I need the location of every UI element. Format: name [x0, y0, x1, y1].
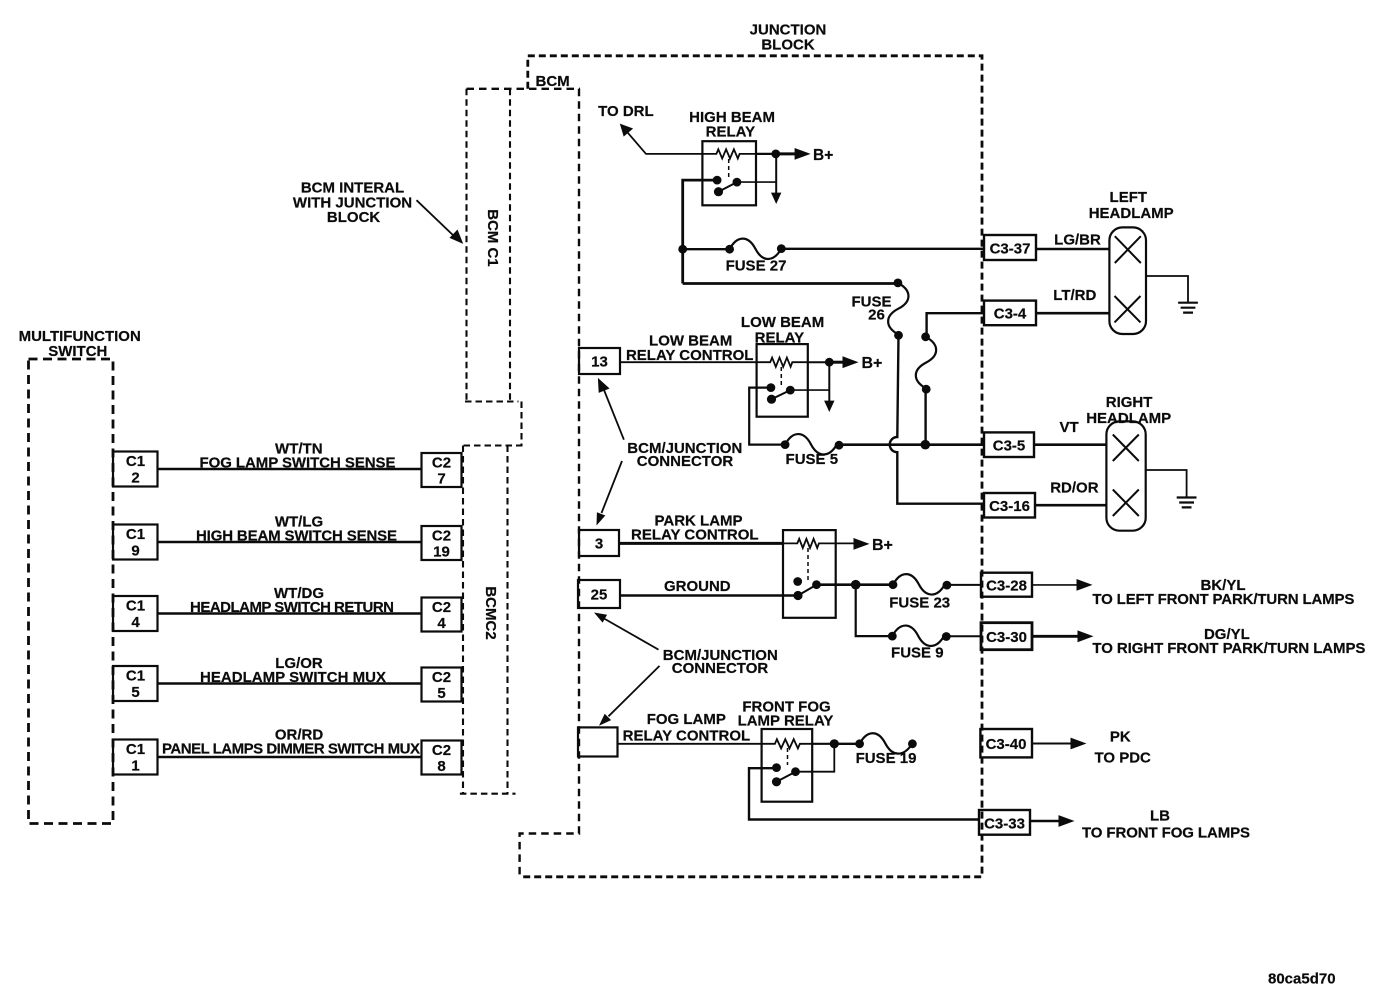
svg-text:VT: VT	[1060, 419, 1079, 436]
wire LG/OR headlamp switch mux	[158, 655, 422, 686]
relay high beam contact common	[733, 178, 742, 187]
node fuse 19 junction	[830, 739, 839, 748]
junction block dashed outline	[520, 56, 982, 877]
fuse 9	[888, 626, 951, 662]
arrow to fog lamp connector box	[599, 666, 660, 726]
front fog lamp relay title	[738, 698, 834, 729]
left headlamp low beam bulb	[1115, 296, 1141, 322]
relay high beam switch blade	[719, 182, 737, 192]
left headlamp title	[1089, 189, 1174, 222]
wire fuse 23 to C3-28	[947, 584, 981, 586]
BCM pin 13 box	[579, 348, 620, 374]
svg-text:C3-30: C3-30	[986, 629, 1027, 646]
wire OR/RD panel lamps dimmer switch mux	[158, 727, 422, 758]
connector C2 pin 4	[422, 598, 462, 633]
svg-text:FUSE 27: FUSE 27	[726, 257, 787, 274]
relay front fog contact common	[791, 767, 800, 776]
arrow to BCM C1 box	[417, 200, 464, 244]
wire low beam relay output to fuse 5	[749, 388, 785, 445]
wire C3-4 branch corner	[927, 313, 984, 337]
wire node to fuse 19	[834, 743, 859, 745]
connector C3-40	[980, 729, 1032, 757]
wire park common to fuse node	[817, 583, 894, 586]
relay low beam switch blade	[772, 390, 791, 399]
svg-text:C3-5: C3-5	[993, 438, 1026, 455]
park lamp relay control label	[631, 513, 759, 544]
BCM dashed boundary	[467, 89, 581, 877]
wire LG/BR to left headlamp	[1036, 232, 1109, 250]
relay low beam box	[757, 344, 808, 417]
connector C1 pin 9	[113, 525, 158, 560]
low beam relay title	[741, 314, 824, 347]
wire 13 to low beam relay	[620, 361, 757, 363]
relay high beam coil dashed actuator	[728, 159, 730, 179]
right headlamp high beam bulb	[1113, 435, 1139, 462]
svg-text:LOW BEAM: LOW BEAM	[741, 314, 824, 331]
relay front fog coil dashed actuator	[787, 748, 789, 765]
relay park lamp switch blade	[798, 585, 817, 596]
relay high beam contact fixed	[713, 176, 722, 185]
relay front fog box	[762, 729, 813, 802]
svg-text:1: 1	[131, 758, 139, 775]
wire WT/TN fog lamp switch sense	[158, 441, 422, 472]
node fuse 26 top	[894, 279, 903, 288]
relay front fog switch blade	[777, 772, 796, 782]
fuse 26	[851, 283, 908, 340]
svg-text:TO PDC: TO PDC	[1094, 750, 1151, 767]
wire bus to fuse 26	[683, 282, 898, 285]
BCM pin 25 box	[578, 580, 620, 608]
node B+ junction low beam	[825, 358, 834, 367]
wire fuse 9 to C3-30	[946, 635, 981, 637]
relay park lamp box	[783, 530, 836, 618]
relay high beam contact lower	[714, 187, 723, 196]
svg-text:C1: C1	[126, 526, 145, 543]
svg-text:C2: C2	[432, 455, 451, 472]
svg-text:C1: C1	[126, 741, 145, 758]
wire B+ arrow park lamp	[836, 537, 893, 554]
svg-text:C3-4: C3-4	[994, 306, 1027, 323]
wire RD/OR to right headlamp	[1035, 480, 1106, 506]
svg-text:19: 19	[433, 544, 450, 561]
connector C3-30	[981, 623, 1032, 650]
connector C3-28	[981, 573, 1032, 597]
svg-text:9: 9	[131, 543, 139, 560]
svg-text:26: 26	[868, 307, 885, 324]
svg-text:TO LEFT FRONT PARK/TURN LAMPS: TO LEFT FRONT PARK/TURN LAMPS	[1092, 591, 1354, 608]
wire down arrow from B+ node low beam	[824, 362, 834, 412]
wire park junction down to fuse 9	[856, 585, 893, 636]
wire 3 to park lamp relay	[619, 542, 783, 545]
node junction on C3-5 wire	[921, 440, 931, 450]
connector C3-5	[984, 432, 1034, 457]
junction block title	[750, 22, 827, 54]
svg-text:C3-33: C3-33	[984, 816, 1025, 833]
svg-text:C2: C2	[432, 528, 451, 545]
svg-text:RELAY CONTROL: RELAY CONTROL	[623, 727, 751, 744]
relay high beam box	[702, 141, 756, 205]
svg-text:FUSE 23: FUSE 23	[889, 595, 950, 612]
connector C2 pin 8	[422, 741, 462, 776]
wire resistor to B+ node	[756, 153, 776, 155]
svg-text:25: 25	[591, 587, 608, 604]
wire branch b to C3-5 wire	[924, 389, 926, 445]
connector C3-37	[984, 235, 1036, 260]
wire fuse 5 to C3-5	[839, 443, 984, 446]
wire common contact to down branch	[737, 181, 776, 183]
svg-text:RIGHT: RIGHT	[1106, 394, 1153, 411]
relay low beam coil dashed actuator	[780, 367, 782, 386]
high beam relay title	[689, 109, 775, 141]
left headlamp high beam bulb	[1115, 236, 1141, 263]
fuse 19	[855, 733, 917, 767]
arrow to pin 13 box	[598, 378, 624, 440]
relay front fog contact fixed	[772, 763, 781, 772]
node fuse 27 tap	[678, 245, 687, 254]
wire WT/DG headlamp switch return	[158, 585, 422, 616]
connector C2 pin 7	[422, 453, 462, 488]
low beam relay control label	[626, 333, 754, 365]
connector C2 pin 5	[422, 668, 462, 703]
ground right headlamp	[1177, 498, 1197, 508]
wire B+ arrow high beam	[776, 147, 833, 164]
wire arrow to left front park turn lamps	[1032, 579, 1093, 591]
right headlamp lamp body	[1106, 421, 1145, 530]
wire B+ arrow low beam	[829, 355, 882, 372]
svg-text:FUSE 19: FUSE 19	[856, 750, 917, 767]
svg-text:13: 13	[591, 354, 608, 371]
svg-text:C1: C1	[126, 453, 145, 470]
right headlamp low beam bulb	[1113, 490, 1139, 517]
svg-text:GROUND: GROUND	[664, 578, 731, 595]
BCMC2 connector dashed box	[460, 446, 516, 794]
svg-text:TO DRL: TO DRL	[598, 103, 654, 120]
fuse 27	[683, 239, 787, 275]
wire fog relay output to C3-33	[749, 768, 979, 819]
svg-text:C1: C1	[126, 598, 145, 615]
svg-text:BCMC2: BCMC2	[482, 586, 499, 639]
wire to DRL with arrowhead	[620, 124, 703, 154]
connector C1 pin 1	[113, 740, 158, 775]
svg-text:HIGH BEAM SWITCH SENSE: HIGH BEAM SWITCH SENSE	[196, 528, 397, 545]
svg-text:PK: PK	[1110, 729, 1131, 746]
svg-text:C3-28: C3-28	[986, 578, 1027, 595]
relay low beam contact common	[786, 386, 795, 395]
svg-text:HEADLAMP SWITCH MUX: HEADLAMP SWITCH MUX	[200, 669, 386, 686]
svg-text:B+: B+	[862, 355, 883, 372]
svg-text:RELAY: RELAY	[706, 124, 755, 141]
svg-text:HEADLAMP: HEADLAMP	[1089, 205, 1174, 222]
relay park lamp contact common	[812, 580, 821, 589]
right headlamp title	[1086, 394, 1171, 427]
svg-text:CONNECTOR: CONNECTOR	[637, 453, 734, 470]
svg-text:TO RIGHT FRONT PARK/TURN LAMPS: TO RIGHT FRONT PARK/TURN LAMPS	[1092, 640, 1365, 657]
svg-text:CONNECTOR: CONNECTOR	[672, 660, 769, 677]
svg-text:C2: C2	[432, 669, 451, 686]
label DG/YL to right front park turn lamps	[1092, 626, 1365, 657]
wire fuse 26 down with hop over C3-5 wire	[890, 335, 984, 503]
wire fuse node down to common contact	[796, 744, 835, 772]
connector C1 pin 4	[113, 596, 158, 631]
svg-text:4: 4	[437, 615, 446, 632]
multifunction switch title	[19, 328, 141, 360]
svg-text:8: 8	[437, 758, 445, 775]
arrow to pin 3 box	[597, 461, 623, 526]
svg-text:B+: B+	[872, 537, 893, 554]
arrow to pin 25 box	[594, 613, 659, 650]
label BK/YL to left front park turn lamps	[1092, 577, 1354, 608]
connector C2 pin 19	[422, 526, 462, 561]
wire arrow to right front park turn lamps	[1032, 630, 1094, 642]
relay park lamp coil resistor	[783, 539, 836, 548]
svg-text:LT/RD: LT/RD	[1053, 287, 1096, 304]
svg-text:2: 2	[131, 470, 139, 487]
svg-text:LB: LB	[1150, 808, 1170, 825]
svg-text:C3-16: C3-16	[989, 498, 1030, 515]
svg-text:C3-40: C3-40	[986, 736, 1027, 753]
ground left headlamp	[1178, 303, 1198, 313]
svg-text:5: 5	[131, 684, 139, 701]
svg-text:TO FRONT FOG LAMPS: TO FRONT FOG LAMPS	[1082, 825, 1250, 842]
svg-text:3: 3	[595, 536, 603, 553]
fuse 26 second element	[916, 337, 936, 389]
svg-text:BCM C1: BCM C1	[484, 209, 501, 267]
svg-text:HEADLAMP SWITCH RETURN: HEADLAMP SWITCH RETURN	[190, 599, 394, 616]
relay park lamp coil dashed actuator	[807, 548, 809, 581]
relay high beam coil resistor	[702, 149, 756, 158]
svg-text:PANEL LAMPS DIMMER SWITCH MUX: PANEL LAMPS DIMMER SWITCH MUX	[162, 741, 420, 758]
wire down arrow from B+ node	[771, 154, 781, 204]
svg-text:5: 5	[437, 685, 445, 702]
node park output junction	[851, 580, 861, 590]
svg-text:SWITCH: SWITCH	[48, 343, 107, 360]
BCM INTERAL WITH JUNCTION BLOCK label	[293, 180, 412, 227]
svg-text:RD/OR: RD/OR	[1050, 480, 1099, 497]
relay park lamp contact lower	[793, 591, 802, 600]
svg-text:HEADLAMP: HEADLAMP	[1086, 410, 1171, 427]
wire resistor to B+ node low beam	[808, 361, 830, 363]
BCM junction connector label upper	[627, 440, 742, 470]
svg-text:FUSE 5: FUSE 5	[786, 451, 839, 468]
svg-text:LEFT: LEFT	[1110, 189, 1148, 206]
multifunction switch dashed box	[29, 359, 114, 824]
relay low beam contact lower	[767, 395, 776, 404]
node branch b top	[921, 332, 930, 341]
svg-text:BLOCK: BLOCK	[761, 37, 814, 54]
wire left headlamp to ground	[1146, 276, 1188, 303]
connector C1 pin 2	[113, 452, 158, 487]
wire VT to right headlamp	[1034, 419, 1106, 445]
left headlamp lamp body	[1109, 227, 1146, 334]
BCM pin 3 box	[579, 530, 619, 556]
relay low beam contact fixed	[767, 383, 776, 392]
relay low beam coil resistor	[757, 358, 808, 367]
svg-text:BCM: BCM	[536, 73, 570, 90]
svg-text:80ca5d70: 80ca5d70	[1268, 971, 1336, 988]
label PK to PDC	[1094, 729, 1151, 767]
label LB to front fog lamps	[1082, 808, 1250, 842]
svg-text:C2: C2	[432, 599, 451, 616]
svg-text:C1: C1	[126, 668, 145, 685]
fuse 5	[781, 434, 844, 468]
BCM junction connector label lower	[663, 647, 778, 677]
svg-text:FUSE 9: FUSE 9	[891, 645, 944, 662]
wire arrow to PDC	[1032, 738, 1087, 750]
svg-text:B+: B+	[813, 147, 833, 164]
wire fog connector to relay	[618, 743, 762, 745]
connector C3-33	[979, 810, 1030, 835]
svg-text:C2: C2	[432, 742, 451, 759]
fog lamp relay control label	[623, 711, 751, 745]
BCM C1 connector dashed box	[463, 89, 523, 446]
wire resistor to fuse 19 node	[812, 743, 834, 745]
connector C3-16	[984, 493, 1035, 518]
node B+ junction high beam	[771, 150, 780, 159]
wire low beam common to down branch	[790, 389, 829, 391]
wire right headlamp to ground	[1146, 470, 1187, 498]
svg-text:FOG LAMP SWITCH SENSE: FOG LAMP SWITCH SENSE	[200, 455, 396, 472]
node branch b bottom	[922, 385, 931, 394]
BCM fog lamp connector box	[578, 727, 618, 756]
svg-text:C3-37: C3-37	[990, 241, 1031, 258]
wire fuse 27 to C3-37	[781, 248, 984, 250]
svg-text:LAMP RELAY: LAMP RELAY	[738, 713, 834, 730]
svg-text:RELAY CONTROL: RELAY CONTROL	[631, 527, 759, 544]
wire arrow to front fog lamps	[1030, 815, 1075, 827]
wire LT/RD to left headlamp	[1036, 287, 1109, 313]
connector C1 pin 5	[113, 666, 158, 701]
svg-text:BLOCK: BLOCK	[327, 209, 380, 226]
svg-text:FOG LAMP: FOG LAMP	[647, 711, 726, 728]
connector C3-4	[984, 301, 1036, 326]
fuse 23	[889, 574, 952, 611]
svg-text:7: 7	[437, 471, 445, 488]
relay park lamp contact fixed	[793, 577, 802, 586]
svg-text:LG/BR: LG/BR	[1054, 232, 1101, 249]
svg-text:4: 4	[131, 614, 140, 631]
relay front fog contact lower	[772, 777, 781, 786]
wire relay output to fuse 27 branch	[683, 180, 717, 283]
wire ground 25 to relay contact	[620, 594, 798, 596]
wire WT/LG high beam switch sense	[158, 514, 422, 545]
relay front fog coil resistor	[762, 739, 813, 748]
